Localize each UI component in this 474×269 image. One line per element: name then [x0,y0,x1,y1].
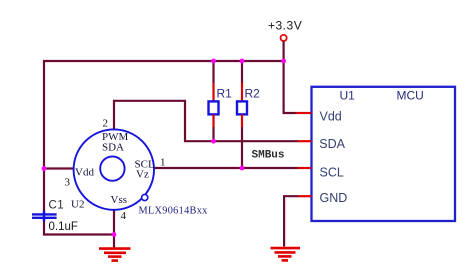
wire +3.3V down to Vdd pin [284,41,296,113]
svg-text:MCU: MCU [397,89,424,103]
svg-text:GND: GND [320,191,348,205]
ground below MCU GND [271,248,301,260]
svg-text:2: 2 [103,118,109,130]
svg-text:R1: R1 [217,87,233,101]
svg-text:Vdd: Vdd [75,166,94,178]
svg-text:MLX90614Bxx: MLX90614Bxx [139,205,209,216]
wire sensor pin4 down to ground [113,210,115,248]
svg-text:4: 4 [121,210,127,222]
svg-text:R2: R2 [245,87,261,101]
svg-text:C1: C1 [49,199,65,211]
junction R1/SDA [211,139,216,144]
svg-text:3: 3 [65,177,71,189]
junction R1/top rail [211,59,216,64]
junction +3.3V/top rail [281,59,286,64]
wire bottom horizontal to Vss node [44,233,114,235]
pin SDA [298,140,312,142]
junction rail/pin3 [42,166,47,171]
svg-text:Vss: Vss [111,194,128,206]
wire MCU GND pin to ground [284,196,298,246]
svg-text:SDA: SDA [319,137,345,151]
svg-text:1: 1 [160,157,166,169]
svg-text:SCL: SCL [320,166,344,180]
wire left vertical rail [43,61,45,214]
MCU U1 box [296,87,456,221]
ground below sensor [99,249,131,261]
power +3.3V symbol [268,19,302,42]
wire SCL line [154,167,298,169]
svg-text:Vdd: Vdd [320,110,342,124]
junction R2/top rail [240,59,245,64]
sensor U2 MLX90614 [65,118,209,223]
junction R2/SCL [240,166,245,171]
pin GND [298,195,312,197]
svg-text:U1: U1 [340,89,356,103]
capacitor C1 [32,199,78,233]
junction bottom/Vss [112,232,117,237]
svg-text:Vz: Vz [136,169,149,181]
wire left rail below capacitor [43,218,45,236]
svg-text:0.1uF: 0.1uF [49,221,78,233]
svg-text:+3.3V: +3.3V [268,19,302,33]
svg-text:SMBus: SMBus [252,149,285,161]
wire sensor pin2 to SDA line [114,101,298,141]
wire sensor pin3 to left rail [44,167,74,169]
svg-text:U2: U2 [71,198,84,210]
pin Vdd [296,112,312,114]
pin SCL [298,167,312,169]
resistor R2 [237,61,260,168]
wire top horizontal rail [44,61,284,62]
svg-text:SDA: SDA [102,141,124,153]
resistor R1 [209,61,233,141]
